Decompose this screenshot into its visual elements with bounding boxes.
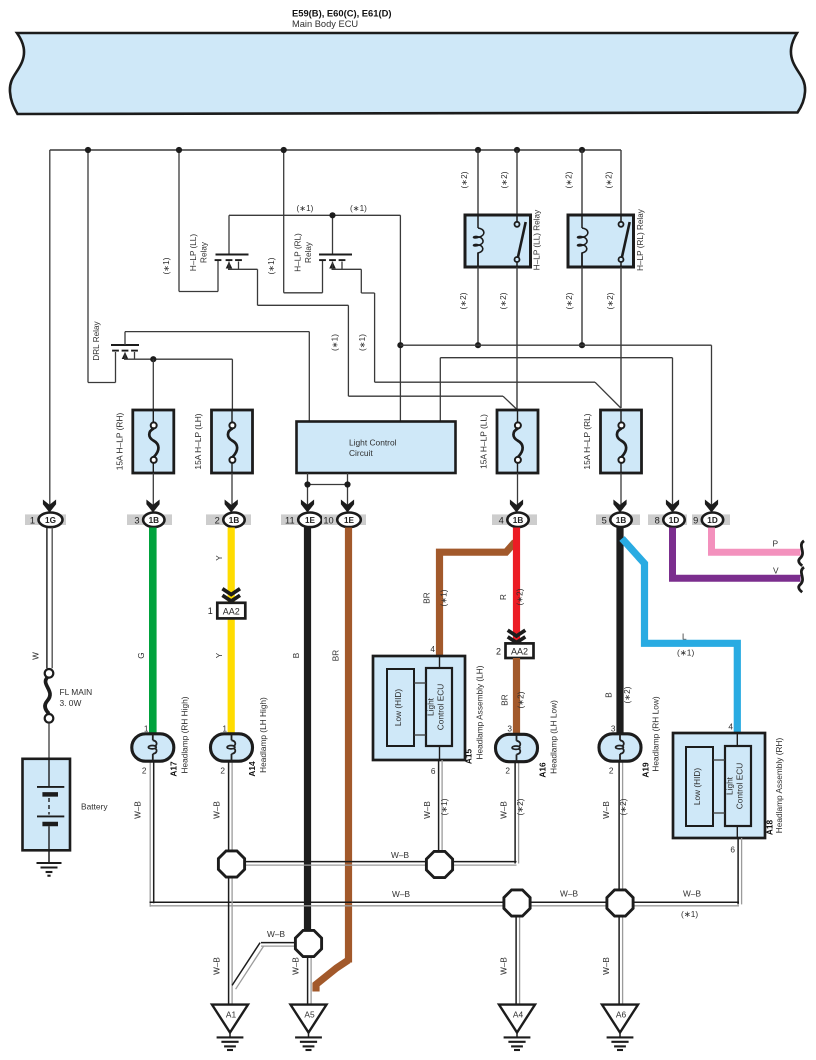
svg-text:W–B: W–B bbox=[602, 957, 611, 975]
svg-text:(∗2): (∗2) bbox=[500, 171, 509, 188]
svg-text:W–B: W–B bbox=[134, 801, 143, 819]
svg-text:Headlamp (LH High): Headlamp (LH High) bbox=[258, 697, 268, 773]
svg-text:1: 1 bbox=[208, 606, 213, 616]
svg-text:2: 2 bbox=[505, 766, 510, 776]
svg-text:(∗2): (∗2) bbox=[619, 798, 628, 815]
svg-text:(∗2): (∗2) bbox=[516, 588, 525, 605]
svg-text:A18: A18 bbox=[765, 820, 775, 836]
svg-text:W–B: W–B bbox=[213, 801, 222, 819]
svg-text:1E: 1E bbox=[344, 516, 355, 525]
svg-text:11: 11 bbox=[285, 515, 295, 525]
svg-text:Relay: Relay bbox=[304, 241, 313, 263]
svg-text:FL MAIN: FL MAIN bbox=[60, 687, 93, 697]
svg-text:A14: A14 bbox=[247, 761, 257, 777]
svg-text:8: 8 bbox=[655, 515, 660, 525]
svg-text:(∗2): (∗2) bbox=[565, 292, 574, 309]
svg-text:1G: 1G bbox=[45, 516, 56, 525]
svg-text:W–B: W–B bbox=[392, 889, 410, 899]
svg-text:4: 4 bbox=[728, 722, 733, 732]
svg-text:3: 3 bbox=[611, 724, 616, 734]
svg-text:15A H–LP (RL): 15A H–LP (RL) bbox=[582, 413, 592, 469]
svg-text:(∗2): (∗2) bbox=[623, 686, 632, 703]
svg-text:W: W bbox=[32, 652, 41, 660]
svg-text:15A H–LP (LL): 15A H–LP (LL) bbox=[479, 414, 489, 469]
svg-text:(∗1): (∗1) bbox=[331, 334, 340, 351]
svg-text:B: B bbox=[292, 652, 301, 658]
svg-text:2: 2 bbox=[220, 766, 225, 776]
svg-text:Low (HID): Low (HID) bbox=[393, 689, 403, 727]
svg-text:W–B: W–B bbox=[391, 850, 409, 860]
svg-text:W–B: W–B bbox=[267, 929, 285, 939]
svg-text:B: B bbox=[605, 692, 614, 698]
svg-text:1E: 1E bbox=[305, 516, 316, 525]
svg-text:(∗1): (∗1) bbox=[440, 798, 449, 815]
svg-text:9: 9 bbox=[693, 515, 698, 525]
svg-text:AA2: AA2 bbox=[511, 647, 528, 657]
svg-text:(∗2): (∗2) bbox=[565, 171, 574, 188]
svg-text:Light: Light bbox=[426, 697, 436, 716]
svg-text:V: V bbox=[773, 566, 779, 576]
svg-text:AA2: AA2 bbox=[223, 606, 240, 616]
svg-text:Control ECU: Control ECU bbox=[436, 684, 446, 731]
svg-text:W–B: W–B bbox=[292, 957, 301, 975]
svg-text:P: P bbox=[773, 539, 779, 549]
svg-text:Control ECU: Control ECU bbox=[735, 763, 745, 810]
svg-text:2: 2 bbox=[215, 515, 220, 525]
svg-text:(∗2): (∗2) bbox=[459, 292, 468, 309]
svg-text:A16: A16 bbox=[538, 762, 548, 778]
svg-text:(∗1): (∗1) bbox=[297, 204, 314, 213]
svg-text:DRL Relay: DRL Relay bbox=[92, 320, 101, 360]
svg-text:H–LP (LL): H–LP (LL) bbox=[189, 234, 198, 271]
svg-text:(∗2): (∗2) bbox=[606, 292, 615, 309]
svg-text:Headlamp Assembly (RH): Headlamp Assembly (RH) bbox=[774, 738, 784, 834]
svg-text:R: R bbox=[499, 594, 508, 600]
svg-text:(∗1): (∗1) bbox=[267, 257, 276, 274]
svg-text:Circuit: Circuit bbox=[349, 448, 373, 458]
svg-text:6: 6 bbox=[431, 766, 436, 776]
svg-text:1: 1 bbox=[222, 724, 227, 734]
svg-text:Headlamp (RH High): Headlamp (RH High) bbox=[180, 696, 190, 773]
svg-text:(∗1): (∗1) bbox=[358, 334, 367, 351]
svg-text:10: 10 bbox=[323, 515, 333, 525]
svg-text:(∗1): (∗1) bbox=[440, 589, 449, 606]
svg-text:A4: A4 bbox=[513, 1010, 524, 1020]
svg-text:3: 3 bbox=[507, 724, 512, 734]
svg-text:Light: Light bbox=[725, 776, 735, 795]
svg-text:A5: A5 bbox=[304, 1010, 315, 1020]
svg-text:1D: 1D bbox=[669, 516, 680, 525]
svg-text:2: 2 bbox=[496, 647, 501, 657]
svg-text:W–B: W–B bbox=[500, 957, 509, 975]
svg-text:A6: A6 bbox=[616, 1010, 627, 1020]
svg-text:W–B: W–B bbox=[560, 889, 578, 899]
svg-text:1B: 1B bbox=[229, 516, 240, 525]
svg-text:A17: A17 bbox=[169, 761, 179, 777]
svg-text:W–B: W–B bbox=[500, 801, 509, 819]
svg-text:(∗1): (∗1) bbox=[681, 909, 698, 919]
svg-text:(∗2): (∗2) bbox=[499, 292, 508, 309]
svg-text:H–LP (RL): H–LP (RL) bbox=[294, 233, 303, 272]
svg-text:Y: Y bbox=[215, 555, 224, 561]
svg-text:G: G bbox=[137, 652, 146, 658]
svg-text:1D: 1D bbox=[707, 516, 718, 525]
svg-text:3. 0W: 3. 0W bbox=[60, 698, 82, 708]
svg-text:Main Body ECU: Main Body ECU bbox=[292, 19, 358, 29]
svg-text:1B: 1B bbox=[616, 516, 627, 525]
svg-text:H–LP (LL) Relay: H–LP (LL) Relay bbox=[533, 209, 542, 270]
svg-text:6: 6 bbox=[730, 845, 735, 855]
svg-text:Y: Y bbox=[215, 652, 224, 658]
svg-text:(∗1): (∗1) bbox=[162, 257, 171, 274]
svg-text:2: 2 bbox=[609, 766, 614, 776]
svg-text:5: 5 bbox=[602, 515, 607, 525]
svg-text:Headlamp (LH Low): Headlamp (LH Low) bbox=[549, 700, 559, 774]
svg-text:BR: BR bbox=[501, 694, 510, 705]
svg-text:W–B: W–B bbox=[423, 801, 432, 819]
svg-text:4: 4 bbox=[430, 644, 435, 654]
svg-text:(∗1): (∗1) bbox=[677, 648, 694, 658]
svg-text:Headlamp (RH Low): Headlamp (RH Low) bbox=[651, 696, 661, 771]
svg-text:15A H–LP (LH): 15A H–LP (LH) bbox=[193, 413, 203, 469]
svg-text:1: 1 bbox=[144, 724, 149, 734]
svg-text:BR: BR bbox=[332, 650, 341, 661]
svg-text:W–B: W–B bbox=[683, 889, 701, 899]
svg-text:A19: A19 bbox=[641, 762, 651, 778]
svg-text:A15: A15 bbox=[464, 749, 474, 765]
svg-text:H–LP (RL) Relay: H–LP (RL) Relay bbox=[636, 208, 645, 271]
svg-text:Low (HID): Low (HID) bbox=[692, 768, 702, 806]
svg-text:Light Control: Light Control bbox=[349, 438, 397, 448]
svg-text:(∗1): (∗1) bbox=[350, 204, 367, 213]
svg-text:4: 4 bbox=[499, 515, 504, 525]
svg-text:(∗2): (∗2) bbox=[516, 798, 525, 815]
svg-text:15A H–LP (RH): 15A H–LP (RH) bbox=[114, 413, 124, 471]
svg-text:1: 1 bbox=[30, 515, 35, 525]
svg-text:L: L bbox=[682, 632, 687, 642]
svg-text:2: 2 bbox=[142, 766, 147, 776]
svg-text:W–B: W–B bbox=[213, 957, 222, 975]
svg-text:W–B: W–B bbox=[602, 801, 611, 819]
svg-text:Relay: Relay bbox=[200, 241, 209, 263]
svg-text:Battery: Battery bbox=[81, 802, 108, 812]
svg-text:(∗2): (∗2) bbox=[605, 171, 614, 188]
svg-text:(∗2): (∗2) bbox=[460, 171, 469, 188]
svg-text:BR: BR bbox=[423, 592, 432, 603]
svg-text:Headlamp Assembly (LH): Headlamp Assembly (LH) bbox=[475, 665, 485, 759]
svg-text:E59(B), E60(C), E61(D): E59(B), E60(C), E61(D) bbox=[292, 8, 392, 19]
svg-text:(∗2): (∗2) bbox=[517, 691, 526, 708]
svg-text:A1: A1 bbox=[226, 1010, 237, 1020]
svg-text:1B: 1B bbox=[513, 516, 524, 525]
svg-text:3: 3 bbox=[134, 515, 139, 525]
svg-text:1B: 1B bbox=[149, 516, 160, 525]
